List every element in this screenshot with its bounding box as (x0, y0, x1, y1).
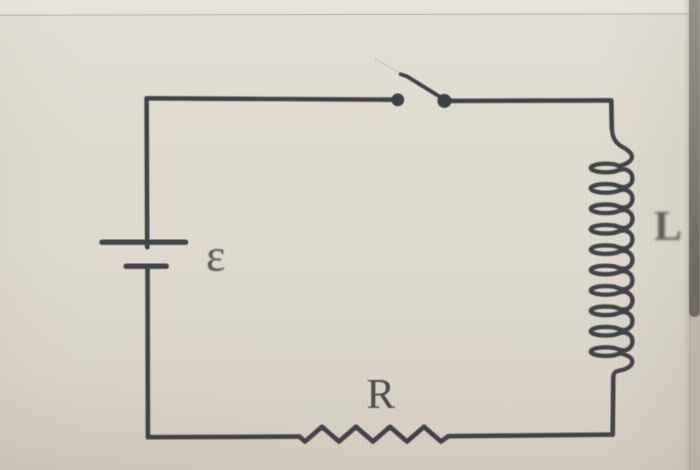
svg-text:L: L (654, 204, 682, 250)
svg-text:ε: ε (206, 230, 225, 281)
svg-text:R: R (367, 371, 396, 418)
